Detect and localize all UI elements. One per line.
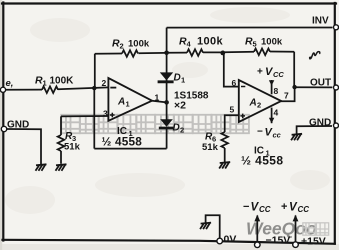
svg-text:×2: ×2: [174, 100, 186, 112]
svg-text:−: −: [257, 127, 263, 138]
svg-text:e,: e,: [6, 78, 14, 89]
svg-text:½ 4558: ½ 4558: [102, 135, 143, 149]
svg-text:7: 7: [284, 91, 289, 101]
svg-text:1: 1: [181, 76, 185, 85]
svg-text:D: D: [173, 123, 180, 134]
svg-text:2: 2: [120, 42, 124, 51]
svg-text:INV: INV: [312, 16, 329, 27]
svg-text:2: 2: [102, 78, 107, 88]
svg-text:8: 8: [274, 86, 279, 96]
svg-text:5: 5: [253, 40, 257, 49]
svg-text:A: A: [117, 97, 125, 108]
svg-text:GND: GND: [309, 118, 331, 129]
svg-text:+: +: [257, 67, 263, 78]
svg-text:3: 3: [103, 109, 108, 119]
svg-text:2: 2: [257, 101, 261, 110]
svg-text:100k: 100k: [128, 39, 150, 50]
svg-text:CC: CC: [259, 205, 271, 214]
svg-text:4: 4: [274, 108, 279, 118]
svg-text:D: D: [174, 73, 181, 84]
svg-text:cc: cc: [273, 131, 282, 140]
svg-text:100k: 100k: [261, 37, 283, 48]
svg-text:A: A: [249, 98, 257, 109]
svg-text:−15V: −15V: [266, 235, 291, 247]
svg-text:51k: 51k: [202, 142, 219, 153]
svg-text:2: 2: [180, 126, 184, 135]
svg-text:0V: 0V: [224, 234, 237, 246]
svg-text:CC: CC: [273, 70, 284, 79]
svg-text:5: 5: [230, 105, 235, 115]
svg-text:−: −: [243, 201, 249, 213]
svg-text:1: 1: [43, 79, 47, 88]
svg-text:6: 6: [232, 78, 237, 88]
svg-text:GND: GND: [7, 120, 29, 131]
svg-text:CC: CC: [298, 205, 310, 214]
svg-text:100k: 100k: [197, 36, 224, 48]
svg-text:100K: 100K: [50, 76, 75, 87]
svg-text:+15V: +15V: [301, 236, 326, 248]
svg-text:+: +: [281, 201, 287, 213]
svg-text:51k: 51k: [64, 142, 81, 153]
svg-text:1: 1: [126, 100, 130, 109]
svg-text:½ 4558: ½ 4558: [241, 154, 283, 168]
svg-text:OUT: OUT: [310, 78, 331, 89]
svg-text:1: 1: [155, 93, 160, 103]
